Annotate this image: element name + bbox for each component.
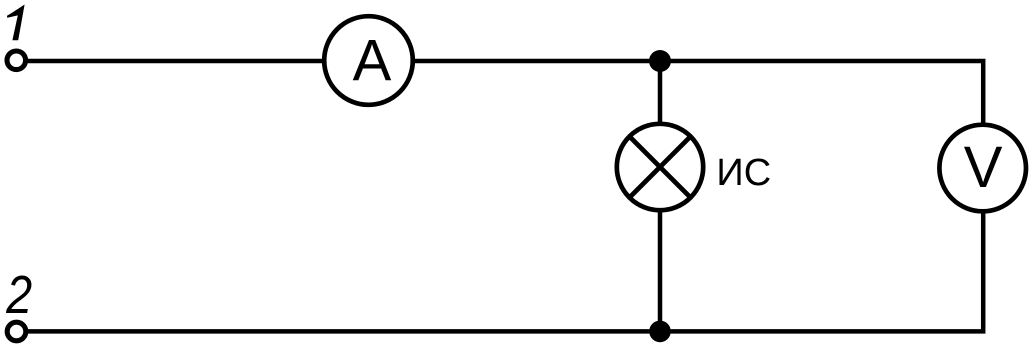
svg-text:V: V (964, 135, 1003, 200)
svg-text:A: A (353, 28, 392, 93)
svg-text:ИС: ИС (716, 152, 771, 194)
svg-text:2: 2 (5, 265, 32, 325)
